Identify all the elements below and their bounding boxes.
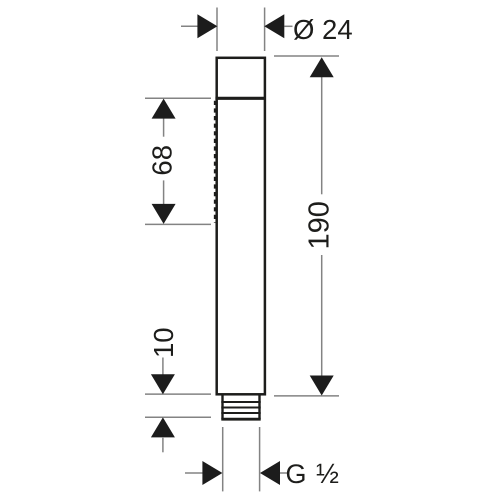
svg-text:G ½: G ½ [286,458,340,489]
svg-text:Ø 24: Ø 24 [293,14,353,45]
svg-text:190: 190 [303,201,335,249]
svg-text:10: 10 [148,327,179,358]
svg-text:68: 68 [147,145,178,176]
